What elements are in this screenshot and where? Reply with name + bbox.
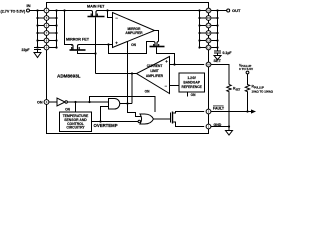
pin 11 OUT <box>206 45 211 50</box>
wire OUT rail right <box>98 10 227 12</box>
block 1.24V BANDGAP REFERENCE <box>179 73 205 92</box>
junction OUT rail / OUT bus right <box>216 9 218 11</box>
junction mirror drain / sense branch <box>107 43 109 45</box>
wire sense branch down <box>109 42 154 54</box>
junction OUT bus right / pin 13 <box>216 32 218 34</box>
junction ON net / gate2 branch <box>88 101 90 103</box>
junction IN rail / IN bus <box>55 9 57 11</box>
svg-text:ON: ON <box>131 43 136 47</box>
wire IN rail left <box>30 10 92 12</box>
junction OUT bus right / pin 12 <box>216 39 218 41</box>
svg-text:SET: SET <box>214 59 222 63</box>
wire current limit output to gates <box>96 73 137 75</box>
wire OVERTEMP <box>92 121 139 123</box>
pin 12 OUT <box>206 38 211 43</box>
pin 15 OUT <box>206 16 211 21</box>
svg-text:16: 16 <box>207 9 211 13</box>
svg-text:11: 11 <box>207 46 210 50</box>
wire mirror amp output <box>155 31 159 42</box>
svg-text:CIRCUITRY: CIRCUITRY <box>66 126 85 130</box>
pin 3 ON <box>44 100 49 105</box>
buffer ON <box>57 98 65 106</box>
svg-text:−: − <box>165 84 168 89</box>
svg-text:FAULT: FAULT <box>213 107 225 111</box>
wire ON input <box>49 101 57 103</box>
block TEMPERATURE SENSOR AND CONTROL CIRCUITRY <box>60 112 92 132</box>
wire gate2 output <box>154 118 171 120</box>
junction OUT bus left / pin 15 <box>198 17 200 19</box>
wire ON branch to gate2 top <box>90 97 156 113</box>
gate AND2 fault logic <box>140 114 154 124</box>
wire reference enable stub <box>187 92 189 97</box>
wire IN bus <box>56 11 58 48</box>
pin 16 OUT <box>206 8 211 13</box>
wire CL plus input to SET <box>170 64 205 66</box>
junction IN bus / pin 7 <box>55 32 57 34</box>
svg-text:REFERENCE: REFERENCE <box>182 85 203 89</box>
svg-text:10kΩ TO 100kΩ: 10kΩ TO 100kΩ <box>252 89 274 93</box>
pin 9 IN <box>44 45 49 50</box>
ground 22uF <box>34 53 41 58</box>
junction 22uF line / pin 9 stub <box>36 46 38 48</box>
junction OUT bus right / pin 14 <box>216 24 218 26</box>
svg-text:10: 10 <box>207 63 211 67</box>
pin 8 IN <box>44 38 49 43</box>
wire SET external <box>211 65 229 85</box>
wire sense fet output to SET <box>157 47 175 64</box>
junction FAULT net / RPULLUP <box>246 110 248 112</box>
wire left pin stubs to bus <box>49 18 57 48</box>
pin 6 IN <box>44 23 49 28</box>
junction GND net / RSET ground <box>228 125 230 127</box>
capacitor 22uF <box>34 48 41 53</box>
pin 2 FAULT <box>206 109 211 114</box>
svg-text:12: 12 <box>207 39 211 43</box>
wire mirror fet drain to + input <box>79 44 113 46</box>
svg-text:ON: ON <box>191 93 196 97</box>
svg-text:ON: ON <box>145 90 150 94</box>
wire OUT pin stubs <box>200 18 206 48</box>
op-amp U1 MIRROR AMPLIFIER <box>113 13 155 48</box>
svg-text:(2.7V TO 5.5V): (2.7V TO 5.5V) <box>1 9 27 13</box>
junction SET net / sense fet <box>173 63 175 65</box>
junction FET gates <box>94 52 96 54</box>
svg-text:22µF: 22µF <box>22 48 31 52</box>
junction OUT bus left / pin 13 <box>198 32 200 34</box>
junction ON net / temp box <box>74 101 76 103</box>
pin 7 IN <box>44 31 49 36</box>
junction 22uF line / pin 8 stub <box>36 39 38 41</box>
junction IN bus / pin 5 <box>55 17 57 19</box>
wire ON net <box>67 101 108 103</box>
wire minus input tap <box>108 11 113 18</box>
pin 5 IN <box>44 16 49 21</box>
wire enable line into mirror amp <box>128 42 142 117</box>
junction OUT bus left / pin 11 <box>198 46 200 48</box>
wire gate drive vertical <box>131 74 133 104</box>
junction OUT rail / OUT bus left <box>198 9 200 11</box>
wire FAULT external <box>211 111 251 113</box>
svg-text:MIRROR FET: MIRROR FET <box>66 38 90 42</box>
junction gate drive / AND1 output riser <box>131 72 133 74</box>
junction OUT bus right / pin 15 <box>216 17 218 19</box>
junction 22uF line / pin 6 stub <box>36 24 38 26</box>
svg-text:0.1µF: 0.1µF <box>223 51 233 55</box>
junction AND1 output / enable line <box>126 102 128 104</box>
chip outline ADM8693L <box>47 3 209 134</box>
svg-text:−: − <box>115 15 118 20</box>
node IN terminal <box>27 9 30 12</box>
transistor MAIN FET <box>91 11 98 17</box>
svg-text:OVERTEMP: OVERTEMP <box>94 123 118 128</box>
op-amp U2 CURRENT LIMIT AMPLIFIER <box>137 57 170 94</box>
pin IN 1..6 left column <box>44 8 49 50</box>
junction OUT bus left / pin 12 <box>198 39 200 41</box>
pin 1 GND <box>206 124 211 129</box>
svg-text:15: 15 <box>207 16 211 20</box>
wire CL minus input to reference <box>170 85 179 87</box>
svg-text:ADM8693L: ADM8693L <box>57 74 81 79</box>
transistor MIRROR FET <box>72 45 80 50</box>
wire OUT bus left <box>199 11 201 48</box>
wire mirror feed bus <box>65 11 72 45</box>
junction IN bus / pin 9 <box>55 46 57 48</box>
junction 22uF line / pin 5 stub <box>36 17 38 19</box>
junction IN rail / mirror feed <box>63 9 65 11</box>
junction IN bus / pin 8 <box>55 39 57 41</box>
svg-text:ON: ON <box>65 108 70 112</box>
svg-text:AMPLIFIER: AMPLIFIER <box>125 31 143 35</box>
pin 10 SET <box>206 62 211 67</box>
pin 13 OUT <box>206 31 211 36</box>
svg-text:LIMIT: LIMIT <box>150 69 158 73</box>
ground external <box>226 131 233 136</box>
wire 22uF branch <box>37 11 39 48</box>
svg-text:0 TO 5.5V: 0 TO 5.5V <box>239 67 254 71</box>
junction mirror fet source <box>71 44 73 46</box>
junction OUT rail / minus tap <box>106 9 108 11</box>
svg-text:BANDGAP: BANDGAP <box>183 81 200 85</box>
ground 0.1uF <box>214 56 221 60</box>
junction OUT bus left / pin 14 <box>198 24 200 26</box>
capacitor 0.1uF <box>214 51 221 56</box>
junction IN bus / pin 6 <box>55 24 57 26</box>
wire ON to temp box <box>75 102 77 112</box>
svg-text:OUT: OUT <box>232 8 241 13</box>
transistor FAULT FET <box>170 113 172 123</box>
svg-text:GND: GND <box>214 123 222 127</box>
resistor RPULLUP <box>245 74 249 112</box>
wire mirror fet gate <box>78 51 96 54</box>
junction 22uF line / pin 7 stub <box>36 32 38 34</box>
pin 14 OUT <box>206 23 211 28</box>
svg-text:IN: IN <box>27 3 31 8</box>
svg-text:RSET: RSET <box>233 87 241 92</box>
node OUT terminal <box>227 9 230 12</box>
svg-text:+: + <box>115 41 118 46</box>
gate AND1 <box>109 99 120 110</box>
resistor RSET <box>227 85 231 131</box>
svg-text:+: + <box>165 59 168 64</box>
junction IN rail / 22uF branch <box>36 9 38 11</box>
wire overtemp to AND1 input <box>101 107 109 122</box>
pin OUT 1..6 right column <box>44 8 211 129</box>
svg-text:ON: ON <box>37 101 43 105</box>
arrow fault <box>251 109 256 113</box>
svg-text:13: 13 <box>207 31 211 35</box>
svg-text:MAIN FET: MAIN FET <box>87 5 105 9</box>
wire left input stubs outer <box>38 18 45 48</box>
junction OUT bus right / pin 11 <box>216 46 218 48</box>
pin 4 IN <box>44 8 49 13</box>
svg-text:1.24V: 1.24V <box>187 76 196 80</box>
node VPULLUP terminal <box>246 71 249 74</box>
junction OVERTEMP / AND1 input <box>99 120 101 122</box>
wire OUT bus right to cap <box>217 11 219 52</box>
wire GND external <box>211 126 229 128</box>
wire AND1 output <box>120 103 132 105</box>
transistor SENSE FET <box>154 42 159 47</box>
svg-text:14: 14 <box>207 24 211 28</box>
svg-text:AMPLIFIER: AMPLIFIER <box>146 74 164 78</box>
svg-text:CURRENT: CURRENT <box>147 64 163 68</box>
